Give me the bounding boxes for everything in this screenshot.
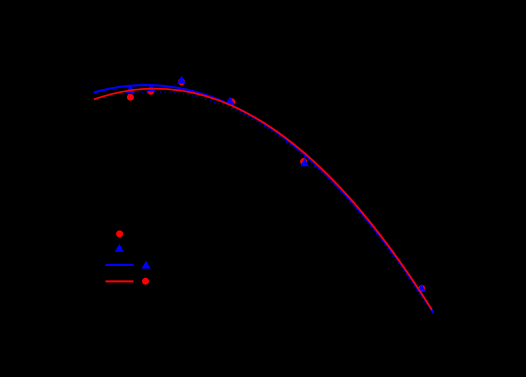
legend marker: blue triangle entry 2 — [115, 244, 124, 252]
data point circle C1 (red, behind) — [127, 94, 134, 101]
data point circle C6 (red, behind) — [418, 285, 425, 292]
data point triangle T1 (blue) — [126, 85, 135, 93]
data point triangle T5 (blue) — [300, 158, 309, 166]
data point triangle T4 (blue) — [226, 96, 235, 104]
legend marker: blue triangle entry 3 — [142, 261, 151, 269]
legend line: red fit entry 4 — [106, 280, 134, 282]
blue solid fit curve — [94, 85, 434, 312]
data point triangle T6 (blue) — [417, 284, 426, 292]
red solid fit curve — [94, 89, 432, 310]
data point triangle T3 (blue) — [177, 76, 186, 84]
data point circle C5 (red, behind) — [300, 158, 307, 165]
legend marker: red circle entry 1 — [116, 230, 123, 237]
legend marker: red circle entry 4 — [142, 278, 149, 285]
data point circle C2 (red, behind) — [147, 88, 154, 95]
data point circle C4 (red, behind) — [228, 98, 235, 105]
blue dotted model curve — [128, 92, 425, 303]
data point triangle T2 (blue) — [147, 84, 156, 92]
data point circle C3 (red, behind) — [178, 78, 185, 85]
legend line: blue fit entry 3 — [106, 264, 134, 266]
